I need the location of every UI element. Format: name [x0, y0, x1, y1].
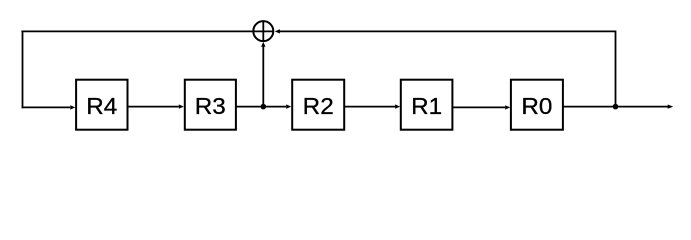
wire: R4 to R3 [128, 106, 179, 108]
junction node tap between R3 and R2 [261, 104, 267, 110]
wire: into register R4 [22, 106, 71, 108]
arrowhead into R3 [179, 104, 184, 108]
arrowhead into R4 [70, 105, 75, 109]
arrowhead into R0 [505, 105, 510, 109]
wire: top-right rail to XOR input [279, 30, 616, 32]
svg-text:R2: R2 [303, 93, 334, 119]
register R0 [511, 80, 563, 130]
wire: left vertical rail [22, 31, 24, 109]
wire: right vertical feedback rail [615, 31, 617, 107]
arrowhead output [668, 105, 674, 109]
arrowhead into R2 [286, 104, 291, 108]
arrowhead left into XOR [275, 29, 280, 33]
register R1 [401, 80, 453, 130]
wire: tap up to XOR input [262, 46, 264, 107]
svg-text:R1: R1 [411, 93, 442, 119]
register R4 [76, 80, 127, 130]
arrowhead up into XOR [261, 42, 265, 47]
junction node output tap [613, 104, 619, 110]
wire: R1 to R0 [452, 106, 505, 108]
wire: feedback top-left rail from XOR output to left corner [21, 30, 273, 32]
wire: R3 to R2 (through tap junction) [236, 106, 286, 108]
wire: R0 to output [563, 106, 668, 108]
svg-text:R3: R3 [195, 93, 226, 119]
register R3 [185, 80, 236, 130]
XOR gate (circle-plus) [253, 21, 273, 41]
svg-text:R0: R0 [521, 93, 552, 119]
arrowhead into R1 [395, 104, 400, 108]
XOR plus vertical bar [262, 22, 264, 42]
svg-text:R4: R4 [86, 93, 117, 119]
register R2 [292, 80, 344, 130]
wire: R2 to R1 [344, 106, 395, 108]
